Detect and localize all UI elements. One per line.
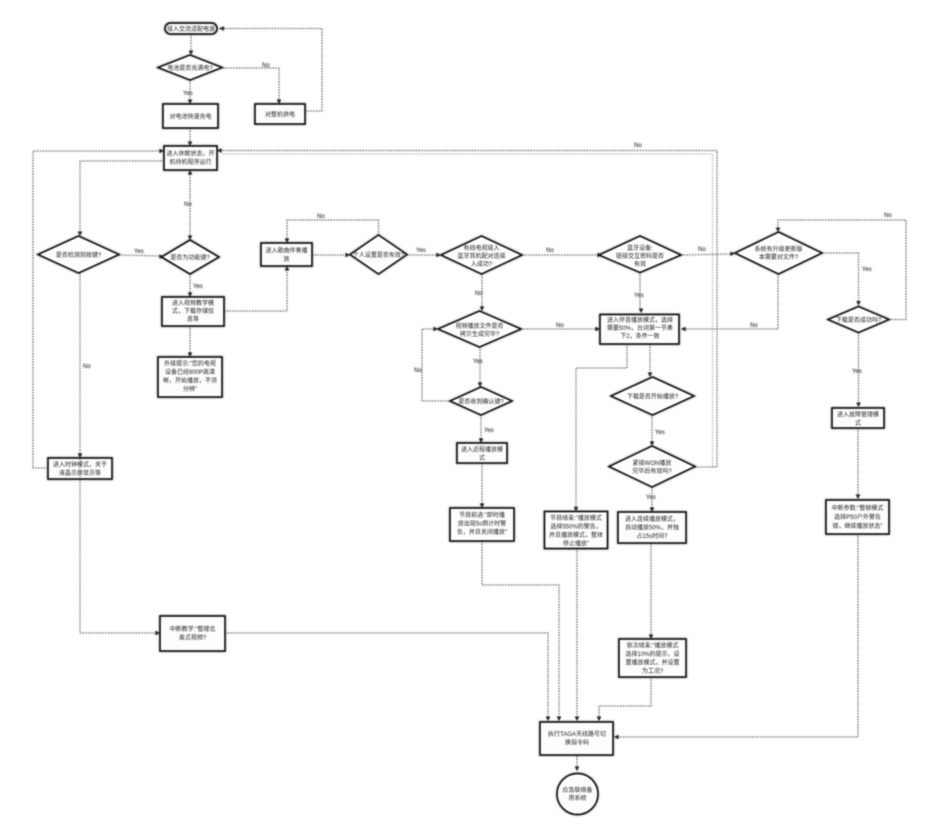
wire: RL left return to R3	[33, 149, 164, 468]
wire: D2 No up to R3	[184, 170, 192, 240]
wire: R3 left out down to DL	[78, 161, 164, 236]
wire: R11 to RB	[482, 541, 561, 721]
decision DL keypress	[38, 236, 119, 273]
wire: start to D1	[189, 34, 193, 55]
process R8	[832, 408, 884, 428]
start stadium	[165, 23, 217, 34]
wire: D1 No to R2	[222, 63, 281, 104]
process R9	[826, 500, 889, 534]
wire: R1 to R3	[188, 128, 192, 146]
wire: D8 No loop to D7 top	[776, 213, 906, 320]
wire: D6 Yes to R7	[634, 273, 644, 314]
decision D8	[828, 307, 889, 333]
process R7	[600, 315, 679, 345]
wire: D10 Yes to R12	[646, 487, 656, 512]
wire: R7 to D9	[648, 344, 652, 377]
wire: R14 right to RB	[225, 633, 550, 721]
process RL	[48, 458, 112, 479]
wire: D4 No to D6	[522, 248, 602, 257]
wire: R15 to RB	[597, 677, 651, 721]
process R5 terminal	[158, 357, 222, 397]
decision D4	[441, 236, 522, 274]
process R12	[618, 512, 686, 543]
decision D5	[438, 311, 521, 347]
wire: RB to end circle	[575, 756, 579, 771]
wire: D5 to R7	[521, 323, 600, 331]
wire: R12 to R15	[649, 543, 653, 639]
wire: R9 to RB right	[614, 534, 858, 739]
decision D6	[599, 236, 681, 273]
wire: D4 Yes to D5	[475, 274, 484, 311]
decision D3	[350, 235, 407, 274]
wire: R13 to R11	[480, 463, 484, 508]
wire: R7 to R10	[574, 344, 627, 512]
wire: D1 Yes to R1	[183, 80, 193, 104]
wire: D11 to R13	[479, 415, 494, 443]
process R15	[619, 639, 686, 677]
process R3 standby hub	[164, 146, 217, 170]
wire: D7 No to R7 right	[681, 274, 778, 331]
process R4	[162, 297, 224, 326]
wire: D5 Yes to D11	[473, 347, 483, 387]
wire: R4 to R5	[188, 326, 192, 357]
wire: R4 right up to R6	[224, 266, 289, 311]
wire: D9 to D10	[650, 415, 665, 446]
wire: D3 Yes to D4	[407, 248, 441, 257]
decision D1	[158, 55, 222, 80]
decision D9	[611, 377, 694, 415]
process R14	[160, 616, 225, 651]
decision D10	[609, 446, 695, 487]
wire: stadium loop from R2	[219, 26, 322, 111]
process RB final	[540, 722, 613, 755]
process R6	[261, 243, 312, 266]
decision D11	[450, 387, 512, 415]
decision D7	[735, 232, 822, 274]
wire: D6 to D7	[681, 247, 735, 256]
process R10	[545, 512, 608, 549]
process R1	[163, 104, 218, 128]
decision D2 function key	[162, 240, 220, 274]
wire: D2 Yes to R4	[188, 274, 203, 297]
wire: R8 to R9	[856, 428, 860, 499]
wire: D8 Yes to R8	[852, 333, 862, 408]
wire segment visible through RL box	[79, 459, 81, 478]
process R2	[255, 104, 305, 124]
wire: R10 to RB	[575, 549, 579, 722]
wire: RL down to R14	[80, 479, 160, 635]
wire: DL Yes to D2	[119, 249, 164, 259]
process R11	[450, 508, 514, 541]
wire: DL No down to RL	[78, 273, 92, 458]
process R13	[457, 443, 507, 463]
end circle	[557, 774, 598, 815]
wire: D10 No return to R3 (double vertical)	[217, 143, 717, 467]
wire: R6 to D3	[312, 253, 350, 257]
wire: D11 No loop to D5 left	[414, 327, 450, 401]
wire: D7 Yes to D8	[822, 253, 872, 306]
wire: D3 No loop to R6 top	[285, 214, 379, 243]
